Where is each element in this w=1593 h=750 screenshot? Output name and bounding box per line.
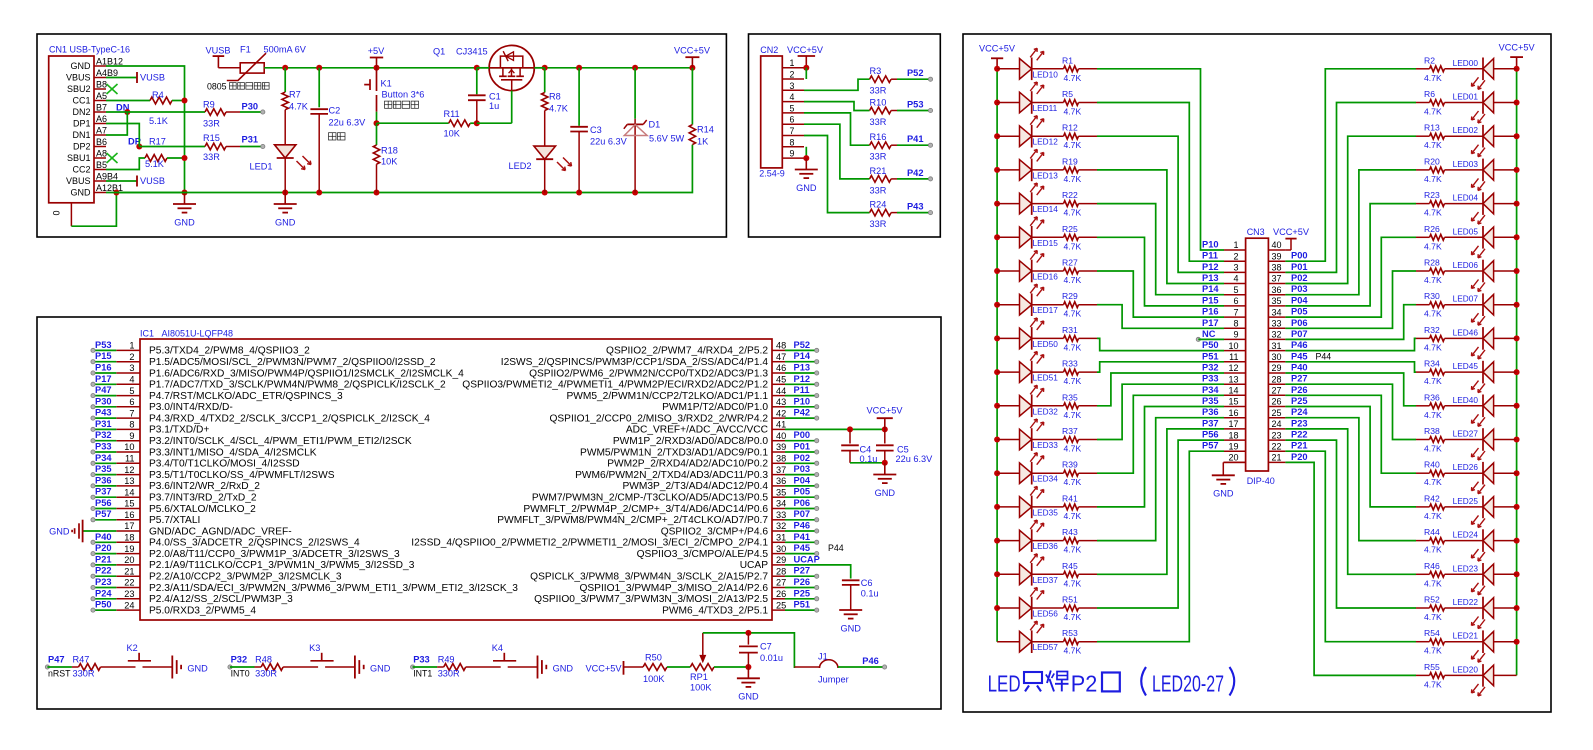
svg-text:R45: R45 (1062, 561, 1078, 571)
svg-text:P10: P10 (1202, 240, 1219, 250)
IC pin 22 (116, 578, 518, 594)
resistor R48 330R (255, 654, 283, 678)
svg-text:R11: R11 (444, 109, 460, 119)
svg-text:LED2: LED2 (509, 161, 532, 171)
wire LED01 to CN3 pin 38 (1285, 103, 1429, 273)
svg-text:25: 25 (1272, 408, 1282, 418)
svg-text:P15: P15 (1202, 295, 1219, 305)
svg-text:4: 4 (790, 92, 795, 102)
svg-text:R33: R33 (1062, 359, 1078, 369)
label P34 (CN3 pin 14) (1202, 385, 1219, 395)
svg-text:4.7K: 4.7K (1064, 376, 1082, 386)
svg-text:QSPIIO2_2/PWM7_4/RXD4_2/P5.2: QSPIIO2_2/PWM7_4/RXD4_2/P5.2 (606, 346, 768, 357)
svg-text:RP1: RP1 (690, 672, 708, 682)
label P26 (CN3 pin 27) (1291, 385, 1308, 395)
connector CN3 DIP-40 (1224, 227, 1285, 486)
svg-text:GND: GND (71, 61, 92, 71)
resistor R49 330R (438, 654, 466, 678)
port P42 (897, 168, 933, 181)
svg-text:17: 17 (1228, 419, 1238, 429)
port P10 (IC pin 43) (785, 396, 819, 409)
label P24 (CN3 pin 25) (1291, 407, 1308, 417)
svg-text:11: 11 (125, 454, 135, 464)
svg-text:P47: P47 (48, 655, 65, 665)
svg-text:R21: R21 (870, 166, 887, 176)
port P32 (228, 655, 261, 679)
LED LED56 (997, 588, 1058, 620)
IC pin 4 (116, 375, 446, 391)
svg-text:P26: P26 (1291, 385, 1308, 395)
ground GND (CN2) (795, 147, 818, 193)
IC pin 15 (116, 499, 256, 515)
LED LED13 (997, 149, 1058, 181)
wire GND row12 to bus (106, 190, 188, 196)
IC pin 35 (532, 487, 786, 503)
svg-text:4.7K: 4.7K (1424, 444, 1442, 454)
svg-text:4.7K: 4.7K (1424, 309, 1442, 319)
svg-text:LED32: LED32 (1033, 406, 1059, 416)
svg-text:VCC+5V: VCC+5V (979, 44, 1016, 54)
svg-text:R40: R40 (1424, 460, 1440, 470)
resistor R2 4.7K (1424, 55, 1483, 83)
svg-text:VCC+5V: VCC+5V (1273, 227, 1310, 237)
svg-text:4.7K: 4.7K (1424, 174, 1442, 184)
svg-text:R17: R17 (149, 137, 166, 147)
svg-text:15: 15 (1228, 397, 1238, 407)
svg-text:1: 1 (129, 341, 134, 351)
label P45 (CN3 pin 30) (1291, 351, 1308, 361)
svg-text:47: 47 (776, 352, 786, 362)
svg-text:46: 46 (776, 363, 786, 373)
resistor R11 10K (377, 109, 480, 139)
svg-text:5: 5 (129, 386, 134, 396)
svg-text:LED05: LED05 (1453, 226, 1479, 236)
svg-text:4.7K: 4.7K (1424, 578, 1442, 588)
svg-text:500mA 6V: 500mA 6V (264, 45, 307, 55)
wire LED10 to CN3 pin 1 (1079, 69, 1225, 250)
resistor R54 4.7K (1424, 628, 1483, 656)
svg-text:CN1 USB-TypeC-16: CN1 USB-TypeC-16 (49, 45, 130, 55)
svg-text:P33: P33 (1202, 374, 1219, 384)
resistor R39 4.7K (1032, 460, 1082, 488)
LED LED24 (1453, 529, 1517, 561)
resistor R27 4.7K (1032, 258, 1082, 286)
svg-text:P36: P36 (95, 475, 112, 485)
svg-text:K1: K1 (381, 79, 392, 89)
svg-text:P02: P02 (794, 453, 811, 463)
svg-text:LED16: LED16 (1033, 272, 1059, 282)
svg-text:LED46: LED46 (1453, 327, 1479, 337)
svg-text:20: 20 (1228, 453, 1238, 463)
fuse F1 500mA self-recovery (227, 45, 307, 81)
port P27 (IC pin 28) (785, 566, 819, 579)
IC pin 9 (116, 431, 412, 447)
svg-text:P32: P32 (1202, 363, 1219, 373)
svg-text:PWMFLT_3/PWM8/PWM4N_2/CMP+_2/T: PWMFLT_3/PWM8/PWM4N_2/CMP+_2/T4CLKO/AD7/… (497, 515, 768, 526)
svg-text:LED25: LED25 (1453, 496, 1479, 506)
wire LED32 to CN3 pin 12 (1079, 373, 1225, 406)
svg-text:R43: R43 (1062, 527, 1078, 537)
svg-text:3: 3 (129, 363, 134, 373)
svg-text:33R: 33R (870, 117, 887, 127)
port P02 (IC pin 38) (785, 453, 819, 466)
svg-text:R29: R29 (1062, 291, 1078, 301)
LED LED20 (1453, 664, 1517, 696)
port P51 (IC pin 25) (785, 600, 819, 613)
svg-text:R25: R25 (1062, 224, 1078, 234)
wire LED34 to CN3 pin 14 (1079, 395, 1225, 473)
power port GND (K3) (355, 656, 391, 679)
port P41 (IC pin 31) (785, 532, 819, 545)
svg-text:DP1: DP1 (73, 119, 91, 129)
svg-text:7: 7 (1233, 307, 1238, 317)
svg-text:4.7K: 4.7K (1064, 174, 1082, 184)
svg-text:P51: P51 (1202, 351, 1219, 361)
ground GND (C4/C5) (873, 463, 896, 498)
port P16 (IC pin 3) (91, 363, 116, 376)
port P13 (IC pin 46) (785, 363, 819, 376)
label P44 (828, 543, 844, 553)
port P30 (240, 102, 265, 115)
resistor R18 10K (373, 123, 398, 192)
svg-text:35: 35 (776, 487, 786, 497)
svg-text:CN2: CN2 (760, 45, 778, 55)
frame box C (MCU) (37, 317, 941, 709)
svg-text:5.1K: 5.1K (145, 159, 165, 169)
svg-text:P06: P06 (794, 498, 811, 508)
svg-text:P1.6/ADC6/RXD_3/MISO/PWM4P/QSP: P1.6/ADC6/RXD_3/MISO/PWM4P/QSPIIO1/I2SMC… (149, 368, 464, 379)
svg-text:P5.7/XTALI: P5.7/XTALI (149, 515, 200, 526)
wire LED27 to CN3 pin 28 (1285, 384, 1429, 439)
svg-text:ADC_VREF+/ADC_AVCC/VCC: ADC_VREF+/ADC_AVCC/VCC (626, 425, 768, 436)
svg-text:INT0: INT0 (231, 668, 250, 678)
svg-text:A6: A6 (96, 114, 107, 124)
label P32 (CN3 pin 12) (1202, 363, 1219, 373)
svg-text:28: 28 (776, 566, 786, 576)
svg-text:P31: P31 (95, 419, 112, 429)
svg-text:0.01u: 0.01u (760, 653, 783, 663)
svg-text:R47: R47 (73, 654, 90, 664)
label P01 (CN3 pin 38) (1291, 262, 1308, 272)
label P00 (CN3 pin 39) (1291, 251, 1308, 261)
svg-text:P44: P44 (828, 543, 844, 553)
IC pin 24 (116, 600, 256, 616)
svg-text:40: 40 (1272, 240, 1282, 250)
svg-text:33R: 33R (203, 152, 220, 162)
potentiometer RP1 100K (690, 633, 714, 692)
svg-text:20: 20 (124, 555, 134, 565)
connector CN2 2.54-9 (759, 45, 804, 179)
svg-text:2.54-9: 2.54-9 (759, 169, 785, 179)
port P52 (897, 68, 933, 81)
svg-text:P3.5/T1/T0CLKO/SS_4/PWMFLT/I2S: P3.5/T1/T0CLKO/SS_4/PWMFLT/I2SWS (149, 470, 335, 481)
label P03 (CN3 pin 36) (1291, 284, 1308, 294)
svg-text:P42: P42 (907, 168, 924, 178)
IC pin 13 (116, 476, 260, 492)
wire LED26 to CN3 pin 27 (1285, 395, 1429, 473)
svg-text:P23: P23 (1291, 418, 1308, 428)
LED LED10 (997, 48, 1058, 80)
label NC (CN3 pin 9) (1202, 329, 1216, 339)
port P31 (240, 135, 265, 149)
resistor R40 4.7K (1424, 460, 1483, 488)
svg-text:4.7K: 4.7K (1064, 646, 1082, 656)
svg-text:LED37: LED37 (1033, 575, 1059, 585)
IC pin 2 (116, 352, 436, 368)
resistor R1 4.7K (1032, 55, 1082, 83)
svg-text:7: 7 (790, 126, 795, 136)
svg-text:LED01: LED01 (1453, 92, 1479, 102)
resistor R15 33R (139, 133, 240, 162)
svg-text:R30: R30 (1424, 291, 1440, 301)
svg-text:VUSB: VUSB (205, 46, 230, 56)
svg-text:22u 6.3V: 22u 6.3V (590, 137, 628, 147)
port P32 (IC pin 9) (91, 430, 116, 443)
svg-text:R8: R8 (549, 92, 561, 102)
resistor R34 4.7K (1424, 359, 1483, 387)
svg-text:1u: 1u (489, 101, 499, 111)
svg-text:4.7K: 4.7K (1064, 444, 1082, 454)
svg-text:12: 12 (1228, 363, 1238, 373)
svg-text:LED56: LED56 (1033, 609, 1059, 619)
resistor R41 4.7K (1032, 493, 1082, 521)
svg-text:P56: P56 (95, 498, 112, 508)
resistor R55 4.7K (1424, 662, 1483, 690)
svg-text:I2SWS_2/QSPINCS/PWM3P/CCP1/SDA: I2SWS_2/QSPINCS/PWM3P/CCP1/SDA_2/SS/ADC4… (501, 357, 769, 368)
IC pin 29 (740, 555, 787, 571)
IC pin 18 (116, 533, 360, 549)
svg-text:GND: GND (796, 183, 817, 193)
svg-text:P3.7/INT3/RD_2/TxD_2: P3.7/INT3/RD_2/TxD_2 (149, 493, 257, 504)
IC pin 42 (549, 408, 786, 424)
IC pin 45 (462, 375, 786, 391)
IC pin 16 (116, 510, 200, 526)
node DP (DP1/DP2 tie) (106, 124, 142, 150)
svg-text:4.7K: 4.7K (1424, 511, 1442, 521)
svg-text:31: 31 (776, 533, 786, 543)
port P21 (IC pin 20) (91, 554, 116, 567)
svg-text:10K: 10K (444, 129, 461, 139)
LED LED57 (997, 621, 1058, 653)
IC pin 43 (662, 397, 786, 413)
svg-text:45: 45 (776, 375, 786, 385)
label P11 (CN3 pin 2) (1202, 251, 1218, 261)
svg-text:0805: 0805 (207, 82, 227, 92)
svg-text:R9: R9 (203, 100, 215, 110)
wire LED14 to CN3 pin 5 (1079, 204, 1225, 295)
LED LED11 (997, 82, 1058, 114)
svg-text:R39: R39 (1062, 460, 1078, 470)
svg-text:R6: R6 (1424, 89, 1435, 99)
svg-text:LED45: LED45 (1453, 361, 1479, 371)
svg-text:3: 3 (1233, 263, 1238, 273)
svg-text:P44: P44 (1316, 351, 1332, 361)
svg-text:LED20-27: LED20-27 (1152, 670, 1224, 696)
LED LED03 (1453, 159, 1517, 191)
svg-text:4.7K: 4.7K (1064, 612, 1082, 622)
svg-text:R7: R7 (289, 90, 301, 100)
label P51 (CN3 pin 11) (1202, 351, 1219, 361)
IC pin 10 (116, 442, 317, 458)
svg-text:PWM7/PWM3N_2/CMP-/T3CLKO/AD5/A: PWM7/PWM3N_2/CMP-/T3CLKO/AD5/ADC13/P0.5 (532, 493, 768, 504)
svg-text:P20: P20 (95, 543, 112, 553)
svg-text:A4B9: A4B9 (96, 68, 118, 78)
IC pin 48 (606, 341, 786, 357)
LED LED23 (1453, 563, 1517, 595)
switch K3 (283, 643, 355, 667)
svg-text:LED21: LED21 (1453, 631, 1479, 641)
wire LED46 to CN3 pin 31 (1285, 338, 1429, 350)
label P16 (CN3 pin 7) (1202, 307, 1219, 317)
svg-text:CN3: CN3 (1247, 227, 1265, 237)
svg-text:14: 14 (124, 487, 134, 497)
svg-text:NC: NC (1202, 329, 1216, 339)
wire LED03 to CN3 pin 36 (1285, 170, 1429, 295)
resistor R19 4.7K (1032, 156, 1082, 184)
no-connect X on SBU1 (107, 153, 118, 163)
label P23 (CN3 pin 24) (1291, 418, 1308, 428)
capacitor C6 0.1u (UCAP) (785, 565, 879, 610)
svg-text:2: 2 (1233, 251, 1238, 261)
svg-text:C3: C3 (590, 125, 602, 135)
svg-text:PWM1P/T2/ADC0/P1.0: PWM1P/T2/ADC0/P1.0 (662, 402, 768, 413)
svg-text:P20: P20 (1291, 452, 1308, 462)
power port VUSB (VBUS row2) (106, 72, 165, 83)
wire LED06 to CN3 pin 33 (1285, 271, 1429, 328)
svg-text:P00: P00 (794, 430, 811, 440)
power port VUSB (fuse input) (205, 46, 240, 68)
port P41 (897, 134, 933, 147)
power port VCC+5V (RP1) (585, 661, 643, 675)
svg-text:15: 15 (124, 499, 134, 509)
port P46 (838, 656, 887, 669)
IC pin 20 (116, 555, 414, 571)
svg-text:28: 28 (1272, 374, 1282, 384)
svg-text:16: 16 (124, 510, 134, 520)
svg-text:0.1u: 0.1u (860, 454, 878, 464)
svg-text:30: 30 (1272, 352, 1282, 362)
wire LED56 to CN3 pin 18 (1079, 440, 1225, 608)
svg-text:R12: R12 (1062, 123, 1078, 133)
resistor R38 4.7K (1424, 426, 1483, 454)
svg-text:P14: P14 (1202, 284, 1219, 294)
svg-text:A5: A5 (96, 91, 107, 101)
power port VUSB (VBUS row11) (106, 176, 165, 187)
wire CN2 to R16 (804, 113, 870, 145)
svg-text:VCC+5V: VCC+5V (674, 46, 711, 56)
resistor R24 33R (870, 200, 898, 230)
svg-text:LED12: LED12 (1033, 137, 1059, 147)
svg-text:GND: GND (370, 663, 391, 673)
svg-text:R18: R18 (381, 145, 398, 155)
port P03 (IC pin 37) (785, 464, 819, 477)
svg-text:4.7K: 4.7K (1424, 545, 1442, 555)
svg-text:P5.0/RXD3_2/PWM5_4: P5.0/RXD3_2/PWM5_4 (149, 605, 256, 616)
IC U1 AI8051U-LQFP48 body (140, 329, 772, 621)
svg-text:PWM5_2/PWM1N/CCP2/T2LKO/ADC1/P: PWM5_2/PWM1N/CCP2/T2LKO/ADC1/P1.1 (566, 391, 768, 402)
LED LED21 (1453, 630, 1517, 662)
label not-soldered (chinese) (329, 133, 346, 140)
switch K4 (466, 643, 538, 667)
svg-text:C2: C2 (329, 106, 341, 116)
svg-text:33: 33 (776, 510, 786, 520)
svg-text:2: 2 (129, 352, 134, 362)
port P26 (IC pin 27) (785, 577, 819, 590)
svg-text:CC1: CC1 (72, 96, 90, 106)
svg-text:4.7K: 4.7K (1064, 511, 1082, 521)
wire shield 0 to GND row (71, 190, 119, 227)
svg-text:4.7K: 4.7K (1064, 275, 1082, 285)
svg-text:8: 8 (1233, 319, 1238, 329)
svg-text:LED10: LED10 (1033, 69, 1059, 79)
svg-text:43: 43 (776, 397, 786, 407)
svg-text:SBU1: SBU1 (67, 153, 91, 163)
svg-text:33R: 33R (870, 152, 887, 162)
capacitor C3 22u 6.3V (570, 68, 627, 193)
port P04 (IC pin 36) (785, 475, 819, 488)
resistor R37 4.7K (1032, 426, 1082, 454)
svg-text:P1.5/ADC5/MOSI/SCL_2/PWM3N/PWM: P1.5/ADC5/MOSI/SCL_2/PWM3N/PWM7_2/QSPIIO… (149, 357, 436, 368)
wire LED35 to CN3 pin 15 (1079, 407, 1225, 507)
label P17 (CN3 pin 8) (1202, 318, 1219, 328)
port P30 (IC pin 6) (91, 396, 116, 409)
svg-text:P2: P2 (1071, 670, 1098, 696)
svg-text:5.6V 5W: 5.6V 5W (649, 134, 685, 144)
svg-text:P05: P05 (1291, 307, 1308, 317)
IC pin 30 (637, 544, 787, 560)
wire RP1 wiper to C7/J1 (703, 630, 795, 670)
svg-text:40: 40 (776, 431, 786, 441)
svg-text:4.7K: 4.7K (1424, 107, 1442, 117)
transistor Q1 CJ3415 (PMOS) (433, 45, 545, 123)
svg-text:5.1K: 5.1K (149, 116, 169, 126)
resistor R42 4.7K (1424, 493, 1483, 521)
svg-text:B5: B5 (96, 160, 107, 170)
label P13 (CN3 pin 4) (1202, 273, 1219, 283)
svg-text:GND: GND (875, 488, 896, 498)
svg-text:QSPIIO3_3/CMPO/ALE/P4.5: QSPIIO3_3/CMPO/ALE/P4.5 (637, 549, 769, 560)
port P23 (IC pin 22) (91, 577, 116, 590)
svg-text:VCC+5V: VCC+5V (1499, 43, 1536, 53)
label P57 (CN3 pin 19) (1202, 441, 1219, 451)
svg-text:VCC+5V: VCC+5V (787, 45, 824, 55)
wire LED45 to CN3 pin 30 (1285, 362, 1429, 372)
wire LED16 to CN3 pin 7 (1079, 271, 1225, 317)
svg-text:P3.4/T0/T1CLKO/MOSI_4/I2SSD: P3.4/T0/T1CLKO/MOSI_4/I2SSD (149, 459, 300, 470)
resistor R33 4.7K (1032, 359, 1082, 387)
svg-text:LED57: LED57 (1033, 642, 1059, 652)
wire LED57 to CN3 pin 19 (1079, 451, 1225, 642)
svg-text:P4.3/RXD_4/TXD2_2/SCLK_3/CCP1_: P4.3/RXD_4/TXD2_2/SCLK_3/CCP1_2/QSPICLK_… (149, 413, 430, 424)
svg-text:P46: P46 (1291, 340, 1308, 350)
IC pin 14 (116, 487, 257, 503)
port P14 (IC pin 47) (785, 351, 819, 364)
IC pin 23 (116, 589, 293, 605)
svg-text:4.7K: 4.7K (1424, 73, 1442, 83)
svg-text:9: 9 (1233, 330, 1238, 340)
svg-text:QSPICLK_3/PWM8_3/PWM4N_3/SCLK_: QSPICLK_3/PWM8_3/PWM4N_3/SCLK_2/A15/P2.7 (530, 572, 768, 583)
svg-text:P57: P57 (95, 509, 112, 519)
svg-text:P07: P07 (1291, 329, 1308, 339)
svg-text:GND: GND (738, 692, 759, 702)
wire LED24 to CN3 pin 25 (1285, 418, 1429, 541)
svg-text:R41: R41 (1062, 493, 1078, 503)
svg-text:I2SSD_4/QSPIIO0_2/PWMETI2_2/PW: I2SSD_4/QSPIIO0_2/PWMETI2_2/PWMETI1_2/MO… (411, 538, 768, 549)
resistor R10 33R (870, 98, 898, 128)
LED LED15 (997, 217, 1058, 249)
resistor R6 4.7K (1424, 89, 1483, 117)
frame box D (LED matrix) (963, 34, 1551, 712)
